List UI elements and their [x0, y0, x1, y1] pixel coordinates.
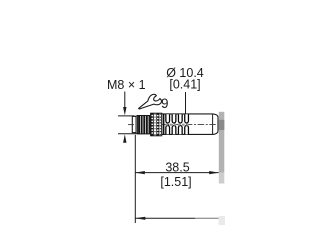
- svg-text:[1.51]: [1.51]: [160, 175, 191, 189]
- body chamfer line: [212, 114, 214, 134]
- arrow right 38.5: [209, 171, 219, 174]
- svg-text:M8 × 1: M8 × 1: [107, 78, 146, 92]
- connector tip: [132, 116, 136, 132]
- svg-text:9: 9: [161, 96, 169, 111]
- arrow left 38.5: [135, 171, 145, 174]
- knurled locking collar: [151, 113, 162, 136]
- cable core dark segment: [219, 120, 225, 130]
- grip left black bar: [163, 114, 165, 134]
- M8 leader line: [124, 92, 126, 108]
- cable stub light tail: [219, 173, 225, 184]
- arrow left cable dimension: [135, 217, 145, 220]
- M8 down arrow: [123, 107, 126, 115]
- thread M8: [137, 116, 150, 134]
- M8 up arrow: [123, 134, 126, 142]
- grip middle band dashes: [165, 124, 188, 126]
- extension line top of thread: [118, 115, 135, 117]
- dimension extension line front face: [134, 135, 136, 223]
- centerline left dash: [128, 124, 134, 126]
- centerline through body: [163, 124, 218, 126]
- cable stub: [219, 112, 225, 173]
- grip slots bottom row: [166, 125, 189, 134]
- svg-text:38.5: 38.5: [165, 160, 189, 174]
- connector body: [162, 114, 218, 134]
- dimension line 38.5: [135, 172, 218, 174]
- cable length dimension line: [135, 217, 195, 219]
- thread relief band: [136, 116, 138, 134]
- extension line bottom of thread: [118, 133, 137, 135]
- cable end marker square: [219, 216, 226, 225]
- grip slots top row: [166, 114, 189, 123]
- svg-text:[0.41]: [0.41]: [169, 78, 200, 92]
- leader line diameter 10.4: [185, 92, 187, 114]
- wrench icon: [139, 94, 162, 109]
